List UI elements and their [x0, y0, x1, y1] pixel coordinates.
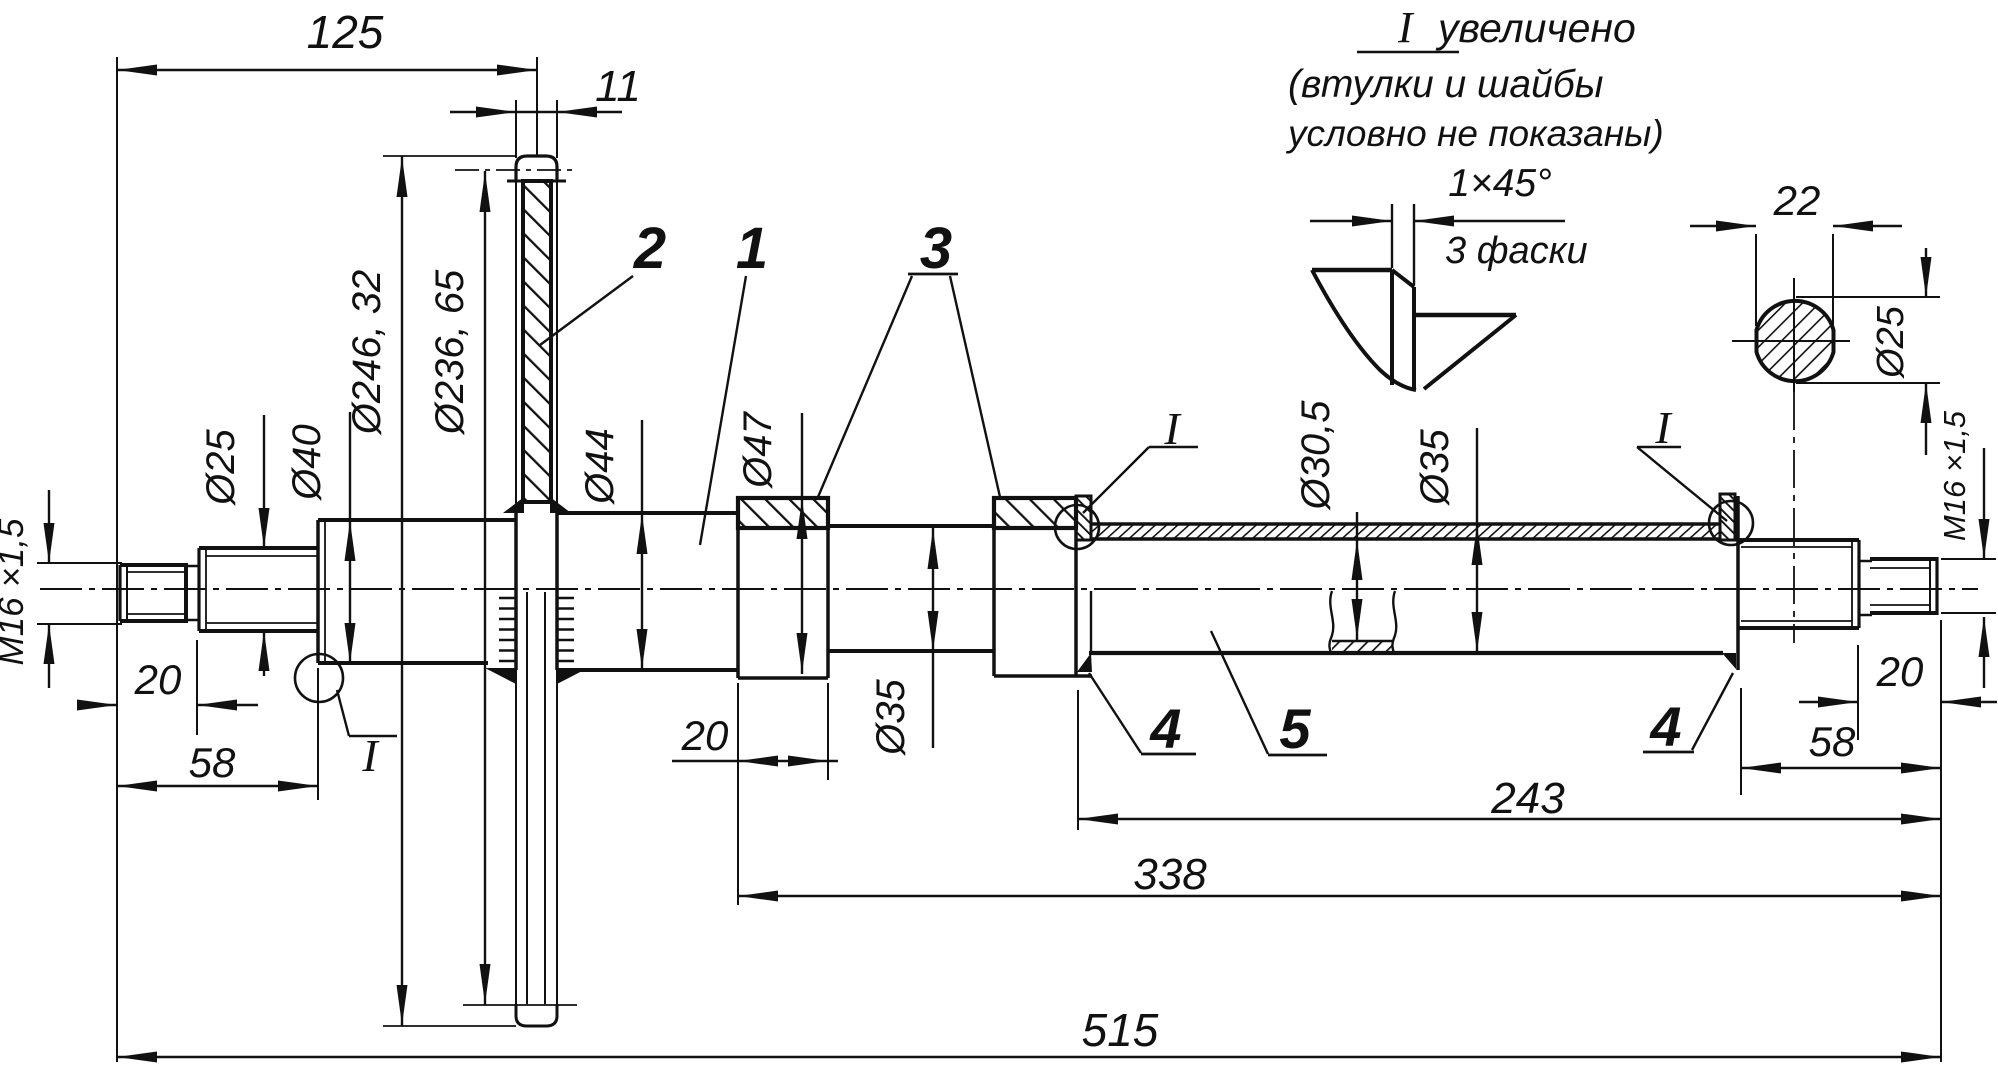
svg-text:3 фаски: 3 фаски: [1445, 230, 1588, 272]
gear pitch dash-dot line at top: [455, 169, 576, 171]
cross-section crosshair horizontal: [1732, 340, 1850, 342]
svg-text:20: 20: [1876, 648, 1924, 695]
weld seam ticks left of gear hub: [499, 598, 516, 661]
gear web crossing shaft right line: [555, 513, 559, 670]
svg-text:3: 3: [920, 216, 952, 281]
bushing 3 right - hatched section band: [994, 498, 1076, 528]
svg-text:Ø47: Ø47: [736, 410, 780, 489]
bushing 3 left - right face: [826, 498, 830, 678]
journal D25 left: [199, 548, 318, 631]
dimension D246,32 (gear tip diameter): [401, 156, 403, 1026]
dimension D35 right (tube OD): [1476, 428, 1478, 653]
svg-text:4: 4: [1149, 697, 1181, 760]
weld seam ticks right of gear hub: [557, 598, 574, 661]
gear hub fillet bottom-left: [485, 668, 516, 684]
extension line thread root left (for 20 left): [196, 640, 198, 735]
cross-section plane vertical centre line: [1793, 278, 1795, 392]
svg-text:Ø40: Ø40: [285, 424, 329, 502]
dimension D25 left journal: [263, 415, 265, 548]
gear rim fillet top-left: [503, 497, 524, 513]
svg-text:338: 338: [1133, 850, 1207, 899]
dimension D40: [349, 412, 351, 663]
tube 5 bottom outline: [1089, 651, 1723, 655]
washer 4 left - lower edge line: [1090, 591, 1092, 653]
svg-text:(втулки и шайбы: (втулки и шайбы: [1288, 63, 1603, 106]
bushing 3 left - bottom edge: [738, 676, 828, 680]
gear 2 bottom tooth cap (rounded): [516, 1004, 557, 1026]
extension line bushing right face (for 20 middle): [827, 683, 829, 780]
dimension 515 (overall length): [117, 1056, 1941, 1058]
dimension 58 right: [1741, 767, 1941, 769]
svg-text:1×45°: 1×45°: [1448, 162, 1551, 205]
dimension M16x1,5 left: [37, 562, 122, 564]
tube 5 top wall hatched strip: [1091, 525, 1720, 538]
dimension D47 (bushing OD): [801, 413, 803, 674]
svg-text:Ø25: Ø25: [199, 428, 243, 506]
centerline of shaft (dash-dot): [40, 588, 1978, 590]
svg-text:58: 58: [1809, 718, 1856, 765]
washer 4 right - chamfer wedge below: [1722, 653, 1736, 669]
svg-text:Ø44: Ø44: [578, 428, 622, 506]
svg-text:I: I: [1654, 402, 1673, 453]
washer 4 left - hatched section: [1076, 496, 1091, 540]
svg-text:Ø30,5: Ø30,5: [1294, 400, 1338, 512]
tube break-out wavy line left: [1329, 591, 1333, 653]
gear hub fillet bottom-right: [557, 668, 588, 684]
shoulder face right (washer seat): [1736, 496, 1740, 670]
svg-text:Ø25: Ø25: [1870, 305, 1912, 380]
extension line gear tip top: [383, 155, 516, 157]
extension line journal right start (for 58 right): [1740, 688, 1742, 795]
dimension D236,65 (gear root diameter): [484, 171, 486, 1005]
detail circle I at left journal step: [295, 654, 343, 702]
washer 4 right - hatched section: [1720, 494, 1735, 540]
gear 2 top tooth cap (rounded): [516, 156, 557, 182]
shaft section D35 between bushings: [828, 526, 994, 651]
cross-section plane dash-dot line down to shaft: [1793, 392, 1795, 643]
dimension 22 (across flats): [1690, 225, 1756, 227]
svg-text:1: 1: [736, 216, 768, 281]
journal D25 right: [1738, 540, 1859, 628]
extension line gear root bottom: [463, 1004, 577, 1006]
svg-text:I: I: [1397, 3, 1415, 52]
svg-text:11: 11: [595, 62, 641, 111]
svg-text:125: 125: [307, 6, 384, 58]
svg-text:увеличено: увеличено: [1435, 5, 1636, 51]
neck between thread and journal: [186, 566, 200, 620]
svg-text:Ø246, 32: Ø246, 32: [345, 270, 389, 437]
extension line gear centre plane (for 125): [536, 57, 538, 156]
dimension 1x45 (chamfer): [1310, 220, 1392, 222]
detail circle I at left washer: [1055, 505, 1099, 549]
extension line right thread end (for 20/58/243/338/515): [1940, 620, 1942, 1062]
bushing 3 right - right face: [1074, 498, 1078, 676]
dimension D25 of cross-section: [1796, 296, 1940, 298]
dimension 58 left: [117, 785, 318, 787]
extension line left end (for 125/20/58/515): [116, 57, 118, 1062]
gear rim fillet top-right: [550, 497, 571, 513]
dimension D30,5 (tube bore): [1356, 512, 1358, 640]
svg-text:I: I: [361, 730, 380, 781]
svg-text:22: 22: [1773, 177, 1821, 224]
washer 4 left - chamfer wedge below: [1077, 653, 1092, 672]
extension line gear tip bottom: [383, 1025, 516, 1027]
bushing 3 right - bottom edge: [994, 674, 1092, 678]
bushing 3 left - hatched section band: [738, 498, 828, 528]
extension line D25-D40 step (for 58 left): [317, 668, 319, 800]
svg-text:Ø35: Ø35: [1413, 428, 1457, 506]
shaft section D44: [557, 513, 739, 670]
dimension 243: [1078, 818, 1941, 820]
svg-text:20: 20: [134, 656, 182, 703]
svg-text:условно не показаны): условно не показаны): [1285, 113, 1664, 154]
detail I extension lines: [1392, 204, 1414, 285]
extension line washer left (for 243): [1077, 690, 1079, 830]
svg-text:М16 ×1,5: М16 ×1,5: [1937, 410, 1972, 541]
gear 2 rim hatched section: [523, 181, 551, 502]
gear web inner lines below shaft: [527, 592, 545, 1005]
dimension 20 middle (bushing width): [672, 760, 838, 762]
dimension 20 left (thread length): [85, 704, 117, 706]
thread M16 right end: [1870, 557, 1937, 615]
tube bottom wall section in break-out: [1332, 641, 1392, 653]
svg-text:2: 2: [633, 216, 666, 281]
cross-section circle with flats (22 across flats on D25): [1757, 301, 1834, 381]
detail I chamfer drawing: [1312, 270, 1516, 390]
svg-text:4: 4: [1649, 695, 1681, 758]
svg-text:515: 515: [1082, 1004, 1159, 1056]
bushing 3 right - left face: [992, 498, 996, 676]
dimension M16x1,5 right: [1941, 558, 1996, 560]
svg-text:М16 ×1,5: М16 ×1,5: [0, 518, 31, 665]
bushing 3 left - left face: [736, 498, 740, 678]
neck right before thread: [1859, 561, 1872, 615]
dimension 20 right (thread length): [1799, 701, 1858, 703]
dimension 338: [738, 895, 1941, 897]
svg-text:58: 58: [189, 739, 236, 786]
detail circle I at right washer: [1709, 501, 1753, 545]
svg-text:243: 243: [1490, 774, 1565, 823]
gear web crossing shaft left line: [514, 513, 518, 670]
dimension 125 (left end to gear plane): [117, 69, 537, 71]
tube break-out wavy line right: [1392, 591, 1396, 653]
svg-text:5: 5: [1279, 697, 1311, 760]
dimension D44: [641, 420, 643, 670]
thread M16 left end (part of shaft 1): [120, 563, 186, 623]
gear 2 tooth tip side lines: [516, 181, 557, 1006]
shaft section D40: [318, 520, 516, 663]
extension line bushing left face (for 338/20): [737, 683, 739, 905]
svg-text:Ø35: Ø35: [869, 678, 913, 756]
dimension D35 middle: [932, 528, 934, 748]
dimension 11 (gear rim width): [450, 111, 622, 113]
svg-text:20: 20: [681, 712, 729, 759]
shoulder face D25/D40 step: [316, 520, 320, 663]
svg-text:Ø236, 65: Ø236, 65: [428, 269, 472, 436]
